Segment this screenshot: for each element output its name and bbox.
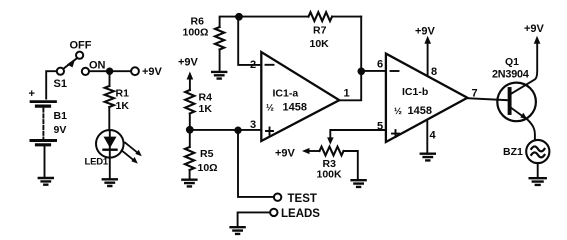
svg-text:½1458: ½1458 bbox=[394, 105, 432, 117]
svg-text:+9V: +9V bbox=[178, 57, 199, 69]
svg-text:1K: 1K bbox=[199, 103, 213, 115]
svg-text:ON: ON bbox=[89, 60, 106, 72]
svg-text:IC1-a: IC1-a bbox=[273, 88, 299, 100]
svg-text:+9V: +9V bbox=[415, 26, 436, 38]
svg-text:BZ1: BZ1 bbox=[503, 146, 523, 158]
svg-text:+9V: +9V bbox=[524, 23, 545, 35]
svg-text:2: 2 bbox=[250, 59, 256, 71]
svg-text:100K: 100K bbox=[317, 169, 343, 181]
svg-text:½1458: ½1458 bbox=[266, 102, 307, 114]
svg-text:R7: R7 bbox=[313, 25, 327, 37]
svg-text:1K: 1K bbox=[116, 100, 130, 112]
svg-text:+: + bbox=[29, 88, 35, 100]
svg-text:4: 4 bbox=[430, 130, 437, 142]
svg-text:R4: R4 bbox=[199, 92, 213, 104]
svg-text:1: 1 bbox=[344, 88, 350, 100]
svg-text:100Ω: 100Ω bbox=[183, 27, 209, 39]
svg-text:OFF: OFF bbox=[70, 40, 92, 52]
svg-text:10Ω: 10Ω bbox=[198, 162, 218, 174]
svg-text:R5: R5 bbox=[200, 148, 214, 160]
svg-text:S1: S1 bbox=[54, 78, 67, 90]
svg-text:Q1: Q1 bbox=[505, 56, 519, 68]
svg-text:7: 7 bbox=[472, 88, 478, 100]
svg-text:8: 8 bbox=[431, 66, 437, 78]
svg-text:3: 3 bbox=[250, 119, 256, 131]
svg-text:IC1-b: IC1-b bbox=[402, 86, 428, 98]
svg-text:6: 6 bbox=[377, 59, 383, 71]
svg-text:+9V: +9V bbox=[142, 66, 163, 78]
svg-text:TEST: TEST bbox=[288, 193, 317, 205]
svg-text:9V: 9V bbox=[54, 124, 67, 136]
svg-text:LED1: LED1 bbox=[85, 157, 109, 168]
svg-text:10K: 10K bbox=[310, 38, 330, 50]
svg-text:2N3904: 2N3904 bbox=[492, 69, 529, 81]
svg-text:5: 5 bbox=[377, 121, 383, 133]
svg-text:R1: R1 bbox=[116, 88, 130, 100]
svg-text:B1: B1 bbox=[54, 110, 68, 122]
svg-text:LEADS: LEADS bbox=[281, 208, 320, 220]
svg-text:+9V: +9V bbox=[275, 148, 296, 160]
